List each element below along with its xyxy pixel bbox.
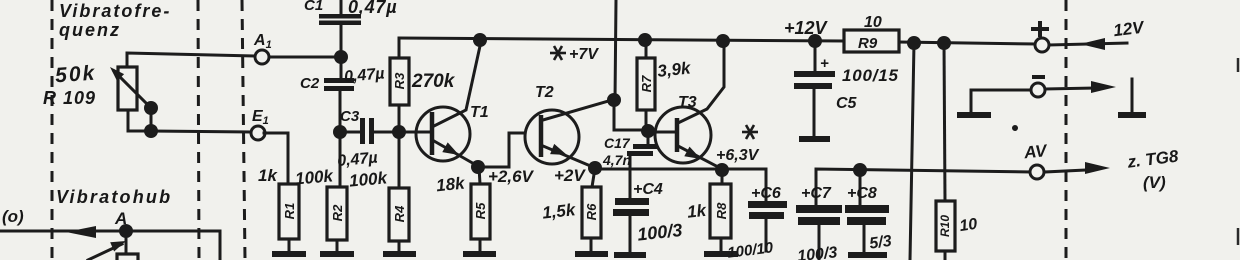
svg-text:R2: R2 [330,204,345,221]
label +C7 [801,185,832,202]
label 1k R1 [258,166,278,185]
wire wiper to E1 line [150,108,153,131]
svg-text:R 109: R 109 [43,88,96,108]
label z. TG8 [1125,147,1179,172]
svg-text:100k: 100k [348,168,389,190]
label +C4 [633,181,663,198]
node E1 line junction [144,124,158,138]
ground bar R1 [272,239,306,254]
dashed partition line left [51,0,54,260]
label R109 [43,88,96,108]
node C3 junction [333,125,347,139]
svg-text:R8: R8 [714,202,729,219]
node rail after R9 [907,36,921,50]
node T1 emitter [471,160,485,174]
svg-text:50k: 50k [54,62,97,88]
terminal plus [1035,38,1049,52]
wire T2 collector to T3 base [614,100,645,130]
wire A1 to main column [269,56,338,59]
wire emitter bus T2-T3 [595,168,722,171]
capacitor C7 [796,205,842,260]
node +12V junction [808,34,822,48]
label 270k [411,71,456,92]
svg-text:100/15: 100/15 [842,66,899,85]
node R7 rail [638,33,652,47]
label plus C5 [820,55,829,72]
svg-text:R5: R5 [473,202,488,219]
wire below node A [125,231,128,260]
svg-text:0,47µ: 0,47µ [337,150,379,170]
label 12V [1112,17,1146,40]
capacitor C17 [627,131,659,169]
svg-text:+2,6V: +2,6V [488,167,535,186]
wire AV bus [816,169,1031,205]
terminal minus [1031,83,1045,97]
ground bar C8 [848,252,887,258]
dashed partition line right [1065,0,1068,260]
label minus sign [1032,75,1045,79]
svg-text:1k: 1k [258,166,278,185]
potentiometer R110 partial wiper [88,241,138,260]
label C2 [300,75,320,92]
label 100/3 C7 [796,244,838,260]
terminal A1 [255,50,269,64]
wire hub corner down [219,231,222,260]
label C17 [604,135,631,151]
svg-text:C1: C1 [304,0,323,14]
svg-text:C5: C5 [836,95,858,112]
label 5/3 [868,233,892,253]
label 0,47u C2 [343,65,385,85]
svg-text:R10: R10 [938,215,952,237]
label 10 R10 [958,216,978,235]
label +C6 [751,185,781,202]
wire T1 emitter to T2 base [478,133,540,167]
label T1 [470,104,489,121]
ground bar R8 [704,238,738,254]
label T2 [535,84,554,101]
ground bar R5 [463,239,496,254]
wire down from rail x917 [910,43,914,260]
node A1 column junction [334,50,348,64]
chassis bar minus left [957,112,991,118]
label Vibratofrequenz [59,1,171,40]
svg-text:+2V: +2V [554,166,586,185]
svg-text:quenz: quenz [59,20,121,40]
label E1 [252,108,269,127]
transistor T3 [649,45,724,168]
svg-text:3,9k: 3,9k [656,58,692,81]
chassis symbol right [1118,79,1146,115]
label A1 [253,32,272,51]
label C1 [304,0,323,14]
svg-text:1,5k: 1,5k [541,200,577,223]
svg-text:+6,3V: +6,3V [716,147,760,164]
label T3 [678,94,697,111]
node A junction [119,224,133,238]
svg-text:10: 10 [958,216,978,235]
label C5 [836,95,858,112]
svg-text:R3: R3 [392,72,407,89]
label 18k [435,173,467,195]
resistor R1 [279,184,299,239]
svg-text:+C7: +C7 [801,185,832,202]
potentiometer R109 [110,67,151,110]
svg-text:1k: 1k [686,201,708,222]
label (V) [1143,173,1166,192]
svg-text:Vibratohub: Vibratohub [56,187,172,207]
ground bar C4 [614,252,646,258]
svg-text:+C4: +C4 [633,181,663,198]
resistor R10 [936,43,955,260]
svg-text:AV: AV [1022,141,1049,163]
label 4,7n [602,152,631,168]
svg-text:T1: T1 [470,104,489,121]
label 3,9k [656,58,692,81]
svg-text:12V: 12V [1112,17,1146,40]
resistor R2 [327,187,347,240]
label 100/15 [842,66,899,85]
stray dot [1012,125,1018,131]
label +2V [554,166,586,185]
capacitor C6 [722,169,787,251]
node rail R10 [937,36,951,50]
resistor R4 [389,132,409,241]
resistor R8 [710,170,731,238]
svg-text:+7V: +7V [569,46,599,63]
terminal AV [1030,165,1044,179]
svg-text:+C8: +C8 [847,185,877,202]
label star +7V [550,46,599,63]
label node A [114,209,127,228]
label 10 R9 [864,14,882,31]
wire to E1 [151,131,251,132]
chassis bar C5 [799,136,830,142]
svg-text:Vibratofre-: Vibratofre- [59,1,171,21]
label plus sign [1031,21,1049,37]
resistor R9 [844,30,899,52]
svg-text:+C6: +C6 [751,185,781,202]
node T3 emitter [715,163,729,177]
label 1k R8 [686,201,708,222]
svg-text:270k: 270k [411,71,456,92]
svg-text:R1: R1 [282,203,297,220]
ground bar R6 [575,238,608,254]
label +2,6V [488,167,535,186]
wire C2 down main column [339,91,342,187]
label 50k [54,62,97,88]
node wiper tap [144,101,158,115]
wire C1 to C2 [340,25,343,78]
ground bar R2 [320,240,354,254]
wire minus net to chassis [971,90,1031,112]
wire E1 to R1 [264,133,288,184]
label (o) [2,207,24,226]
node R3 base junction [392,125,406,139]
label 0,47u C3 [337,150,379,170]
label +C8 [847,185,877,202]
capacitor C3 [340,118,398,144]
label AV [1022,141,1049,163]
capacitor C5 [794,41,835,136]
svg-text:C2: C2 [300,75,320,92]
wire minus arrow [1045,81,1116,93]
terminal E1 [251,126,265,140]
resistor R6 [582,168,601,238]
svg-text:+12V: +12V [784,18,829,38]
ground bar R4 [383,241,416,254]
label +12V [784,18,829,38]
svg-text:0,47µ: 0,47µ [343,65,385,85]
resistor R5 [471,167,490,239]
svg-text:T2: T2 [535,84,554,101]
label 100/10 [726,239,774,260]
svg-text:R4: R4 [392,205,407,222]
wire pot top to A1 [127,53,254,67]
svg-text:T3: T3 [678,94,697,111]
wire hub line with arrow [0,226,220,238]
svg-text:R7: R7 [639,75,654,92]
capacitor C8 [845,170,889,253]
node C8 tap [853,163,867,177]
svg-text:C17: C17 [604,135,631,151]
label 100/3 C4 [636,220,683,245]
capacitor C2 [324,78,354,91]
svg-text:18k: 18k [435,173,467,195]
wire pot bottom lead [128,110,147,131]
svg-text:(o): (o) [2,207,24,226]
resistor R3 [390,38,409,132]
svg-text:5/3: 5/3 [868,233,892,253]
svg-text:+: + [820,55,829,72]
svg-text:C3: C3 [340,108,360,125]
svg-text:R6: R6 [584,203,599,220]
label 100k R4 [348,168,389,190]
node T2 emitter [588,161,602,175]
transistor T2 [525,100,612,167]
transistor T1 [399,46,480,165]
svg-text:100k: 100k [294,166,335,188]
dashed partition line far right edge [1237,58,1240,245]
label C3 [340,108,360,125]
wire +7V rail [399,38,844,41]
label 1,5k [541,200,577,223]
svg-text:R9: R9 [858,35,878,52]
wire AV out arrow [1044,162,1110,174]
svg-text:0,47µ: 0,47µ [348,0,397,17]
capacitor C4 [613,169,649,252]
node T3 collector rail [716,34,730,48]
label star 6,3V [716,125,760,164]
wire feedback vertical x615 [615,0,616,100]
label 0,47u C1 [348,0,397,17]
svg-text:4,7n: 4,7n [602,152,631,168]
node T2 collector [607,93,621,107]
label Vibratohub [56,187,172,207]
dashed partition line 2 [198,0,199,260]
wire 12V in arrow [1049,38,1127,50]
node T3 base [641,124,655,138]
capacitor C1 [319,0,361,25]
dashed partition line 3 [242,0,245,260]
node T1 collector rail [473,33,487,47]
svg-text:(V): (V) [1143,173,1166,192]
label 100k R2 [294,166,335,188]
wire rail after R9 [899,42,1036,44]
resistor R7 [637,40,655,130]
